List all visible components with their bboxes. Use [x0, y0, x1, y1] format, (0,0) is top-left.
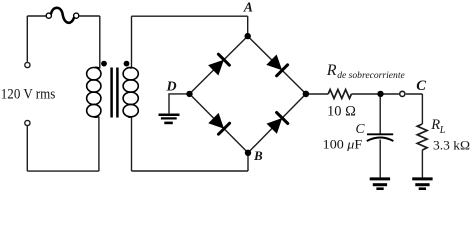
wire secondary right vertical to node B — [247, 153, 249, 171]
wire capacitor curved plate to ground — [379, 140, 381, 178]
diode D4 (B to output) — [267, 113, 288, 134]
wire bridge output to resistor — [306, 93, 328, 95]
svg-text:R: R — [430, 117, 440, 133]
svg-text:100 μF: 100 μF — [323, 138, 363, 152]
wire bridge edge A-output — [248, 36, 306, 94]
svg-text:B: B — [253, 148, 263, 163]
terminal source bottom — [25, 120, 30, 125]
svg-text:C: C — [356, 121, 366, 136]
wire primary left vertical lower — [26, 126, 28, 171]
node B junction — [245, 150, 251, 156]
wire primary left vertical upper — [26, 16, 28, 62]
wire junction down to capacitor top plate — [379, 94, 381, 134]
wire bridge edge D-B — [190, 94, 249, 153]
wire primary top-right segment — [79, 15, 100, 17]
resistor RL zigzag — [417, 124, 427, 150]
fuse F1 — [46, 8, 79, 23]
svg-text:10 Ω: 10 Ω — [327, 104, 356, 120]
svg-text:L: L — [439, 125, 446, 136]
diode D1 (D to A) — [208, 54, 229, 75]
wire secondary right vertical to node A — [247, 16, 249, 36]
wire primary bottom — [27, 170, 99, 172]
polarity dot secondary — [124, 61, 130, 67]
wire primary right vertical lower (winding bottom to bottom wire) — [98, 117, 100, 172]
wire primary right vertical upper (to winding top) — [99, 16, 101, 69]
ground below RL — [412, 179, 432, 189]
svg-text:R: R — [326, 62, 337, 79]
transformer core — [112, 68, 118, 118]
polarity dot primary — [101, 61, 107, 67]
wire junction to open terminal — [381, 93, 399, 95]
transformer T1 primary winding — [87, 67, 101, 117]
resistor R de sobrecorriente zigzag — [328, 90, 351, 99]
svg-text:120 V rms: 120 V rms — [1, 87, 56, 103]
wire corner down to RL — [421, 94, 423, 124]
wire resistor to junction — [351, 93, 380, 95]
wire secondary bottom horizontal — [132, 170, 249, 172]
wire secondary top stem — [131, 16, 133, 68]
terminal source top — [25, 62, 30, 67]
ground below capacitor — [370, 179, 390, 189]
node D junction — [186, 91, 192, 97]
svg-text:D: D — [166, 80, 177, 95]
wire secondary top horizontal — [132, 15, 248, 17]
wire RL to ground — [421, 150, 423, 177]
transformer T1 secondary winding — [123, 68, 138, 118]
diode D2 (A to output) — [266, 55, 287, 76]
capacitor C curved plate — [367, 138, 394, 142]
wire node D to ground corner — [169, 94, 190, 114]
node A junction — [245, 33, 251, 39]
svg-text:de sobrecorriente: de sobrecorriente — [337, 70, 405, 81]
diode D3 (D to B) — [208, 113, 229, 134]
wire primary top-left segment — [27, 15, 45, 17]
wire secondary bottom stem — [131, 117, 133, 172]
svg-text:3.3 kΩ: 3.3 kΩ — [433, 138, 470, 153]
wire open terminal to corner below C — [406, 93, 423, 95]
junction dot after resistor — [377, 91, 383, 97]
svg-text:A: A — [243, 0, 253, 15]
svg-text:C: C — [416, 78, 426, 94]
node output junction — [303, 91, 310, 98]
capacitor C top plate — [367, 133, 393, 135]
wire bridge edge D-A — [190, 36, 248, 94]
ground at node D — [159, 115, 180, 123]
wire bridge edge B-output — [248, 94, 306, 153]
terminal node C — [400, 91, 405, 96]
